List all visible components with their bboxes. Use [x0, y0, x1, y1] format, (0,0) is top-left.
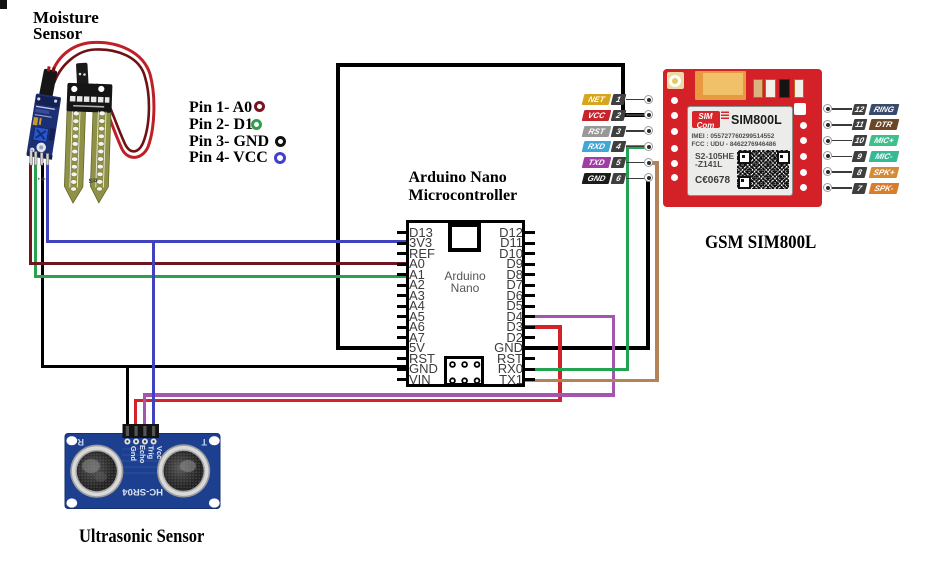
svg-text:Trig: Trig — [147, 446, 156, 460]
GSM QR code — [737, 150, 789, 189]
svg-text:Vcc: Vcc — [155, 446, 164, 459]
wire D4 purple horizontal from Arduino — [525, 315, 615, 319]
pin stub A3 (left row 7) — [397, 294, 407, 297]
wire GND black: horizontal to Arduino GND right — [525, 346, 650, 350]
GSM pin 2 number chip — [611, 110, 627, 121]
GSM pin 4 pad — [644, 142, 653, 151]
GSM pin 4 lead line — [626, 146, 646, 148]
GSM pin 2 pad — [644, 110, 653, 119]
GSM pin 9 pad — [823, 151, 832, 160]
transducer right — [157, 444, 210, 497]
svg-text:Gnd: Gnd — [129, 446, 138, 461]
pin stub D12 (right row 1) — [525, 231, 535, 234]
moisture module connector — [39, 66, 58, 99]
pin stub A6 (left row 10) — [397, 326, 407, 329]
legend pin 1 ring A0 — [254, 101, 265, 112]
pin stub D8 (right row 5) — [525, 273, 535, 276]
pin label D2 — [455, 333, 523, 343]
GSM pin 6 label chip GND — [582, 173, 612, 184]
pin label D3 — [455, 322, 523, 332]
GSM pin 10 lead line — [832, 140, 852, 142]
pin label A3 — [409, 291, 425, 301]
wire ultrasonic Trig purple vertical — [143, 393, 147, 428]
wire TXD brown: GSM pin5 stub — [649, 161, 659, 165]
GSM pin 6 lead line — [626, 178, 646, 180]
pin label D5 — [455, 301, 523, 311]
GSM SIMCom logo — [692, 111, 720, 128]
pin stub RX0 (right row 14) — [525, 368, 535, 371]
pin stub GND (right row 12) — [525, 347, 535, 350]
GSM right pad square — [794, 103, 806, 115]
GSM pin 5 number chip — [611, 157, 627, 168]
pin label A7 — [409, 333, 425, 343]
GSM pin 3 pad — [644, 126, 653, 135]
wire A0 dark red vertical from moisture — [29, 163, 32, 264]
pin label D12 — [455, 228, 523, 238]
title Arduino Nano Microcontroller — [409, 169, 518, 205]
wire moisture GND black horizontal to Arduino GND left — [41, 365, 408, 368]
pin label GND — [409, 364, 438, 374]
wire TXD brown horizontal to Arduino TX1 — [525, 379, 659, 383]
wire D3 red vertical — [558, 325, 562, 402]
pin label D4 — [455, 312, 523, 322]
GSM pin 12 number chip — [852, 104, 868, 115]
legend pin 4 ring VCC — [274, 152, 286, 164]
GSM IMEI line — [692, 133, 775, 140]
GSM pin 4 number chip — [611, 141, 627, 152]
GSM pin 1 lead line — [626, 99, 646, 101]
wire VCC black: left vertical — [336, 63, 340, 350]
pin stub RST (right row 13) — [525, 357, 535, 360]
wire D4 purple bottom horizontal to ultrasonic Trig — [143, 393, 615, 397]
legend pin 1 label — [189, 99, 252, 117]
GSM pin 7 pad — [823, 183, 832, 192]
moisture sensor assembly — [15, 35, 180, 215]
wire VCC black: GSM pin2 to Arduino 5V, segment pad to corner — [621, 113, 649, 117]
Arduino center text — [432, 270, 498, 294]
wire GND black: GSM pin6 vertical down — [646, 178, 650, 350]
GSM pin 3 lead line — [626, 130, 646, 132]
GSM pin 12 label chip RING — [868, 104, 899, 115]
GSM pin 1 pad — [644, 95, 653, 104]
GSM pin 11 lead line — [832, 124, 852, 126]
legend pin 3 label — [189, 133, 269, 151]
svg-text:HC-SR04: HC-SR04 — [122, 486, 163, 497]
op-board Arduino Nano body — [406, 220, 525, 387]
pin stub RST (left row 13) — [397, 357, 407, 360]
pin label A5 — [409, 312, 425, 322]
wire RXD green horizontal to Arduino RX0 — [525, 368, 629, 372]
pin label D9 — [455, 259, 523, 269]
pin stub GND (left row 14) — [397, 368, 407, 371]
wire VCC blue vertical from moisture — [46, 163, 49, 243]
header block — [123, 424, 160, 438]
pin stub D13 (left row 1) — [397, 231, 407, 234]
pin stub D10 (right row 3) — [525, 252, 535, 255]
GSM SIM800L module PCB — [663, 69, 822, 207]
pin label RX0 — [455, 364, 523, 374]
wire ultrasonic Vcc blue branch vertical — [152, 240, 155, 428]
pin stub VIN (left row 15) — [397, 378, 407, 381]
corner artifact mark — [0, 0, 7, 9]
pin label GND — [455, 343, 523, 353]
pin label D7 — [455, 280, 523, 290]
wire VCC black: top horizontal — [336, 63, 625, 67]
svg-text:·+: ·+ — [38, 174, 46, 184]
wire D3 red horizontal from Arduino — [525, 325, 562, 329]
wire A1 green vertical from moisture — [34, 163, 37, 278]
pin label D6 — [455, 291, 523, 301]
wire ultrasonic Gnd black branch vertical — [126, 365, 129, 428]
pin label D11 — [455, 238, 523, 248]
GSM shield SIM800L — [687, 106, 793, 196]
wire TXD brown vertical — [655, 161, 659, 382]
ultrasonic PCB — [65, 434, 220, 509]
GSM antenna pad — [667, 72, 684, 89]
header pads — [124, 439, 130, 445]
GSM QR finder top-right — [777, 151, 790, 164]
GSM pin 4 label chip RXD — [582, 141, 612, 152]
wire RXD green vertical — [626, 145, 630, 371]
GSM pin 8 number chip — [852, 167, 868, 178]
Arduino ICSP header — [444, 356, 484, 386]
GSM pin 7 lead line — [832, 187, 852, 189]
pin label A6 — [409, 322, 425, 332]
wire VCC black: into 5V pin — [336, 346, 407, 350]
moisture cable loop — [50, 42, 154, 157]
pin stub A1 (left row 5) — [397, 273, 407, 276]
ultrasonic sensor HC-SR04 — [58, 418, 228, 514]
svg-text:Echo: Echo — [138, 445, 147, 464]
trace lines — [122, 449, 160, 473]
pin stub D3 (right row 10) — [525, 326, 535, 329]
pin stub A2 (left row 6) — [397, 284, 407, 287]
pin stub A0 (left row 4) — [397, 263, 407, 266]
GSM pin 9 label chip MIC- — [868, 151, 899, 162]
legend pin 2 ring D1 — [251, 119, 262, 130]
legend pin 4 label — [189, 149, 268, 167]
GSM QR finder bottom-left — [738, 176, 751, 189]
pin label RST — [409, 354, 435, 364]
pin stub A7 (left row 11) — [397, 336, 407, 339]
GSM pin 9 number chip — [852, 151, 868, 162]
GSM pin 12 lead line — [832, 108, 852, 110]
pin label TX1 — [455, 375, 523, 385]
title Moisture Sensor — [33, 10, 99, 43]
GSM QR finder top-left — [738, 151, 751, 164]
pin label D13 — [409, 228, 433, 238]
GSM pin 6 pad — [644, 173, 653, 182]
wire VCC blue horizontal to Arduino 3V3 — [46, 240, 407, 243]
pin stub D6 (right row 7) — [525, 294, 535, 297]
pin stub D11 (right row 2) — [525, 242, 535, 245]
pin stub TX1 (right row 15) — [525, 378, 535, 381]
pin label D8 — [455, 270, 523, 280]
pin label A4 — [409, 301, 425, 311]
wire A1 green horizontal to Arduino A1 — [34, 275, 407, 278]
GSM pin 10 number chip — [852, 135, 868, 146]
pin stub 5V (left row 12) — [397, 347, 407, 350]
wire VCC black: vertical up — [621, 63, 625, 117]
wire D3 red bottom horizontal to ultrasonic Echo — [134, 399, 562, 403]
GSM logo dot grid — [721, 110, 729, 119]
wire moisture GND black vertical — [41, 163, 44, 368]
GSM left hole column — [671, 97, 678, 104]
pin stub A4 (left row 8) — [397, 305, 407, 308]
legend pin 3 ring GND — [275, 136, 286, 147]
GSM pin 8 label chip SPK+ — [868, 167, 899, 178]
GSM CE0678 text — [695, 175, 730, 186]
wire A0 dark red horizontal to Arduino A0 — [29, 262, 407, 265]
moisture probe cap — [76, 63, 89, 86]
GSM right hole column — [800, 122, 807, 129]
pin label RST — [455, 354, 523, 364]
GSM pin 1 number chip — [611, 94, 627, 105]
GSM pin 11 pad — [823, 120, 832, 129]
wire D4 purple vertical — [612, 315, 616, 397]
pin stub D7 (right row 6) — [525, 284, 535, 287]
svg-text:T: T — [201, 437, 207, 447]
GSM pin 12 pad — [823, 104, 832, 113]
GSM pin 11 number chip — [852, 119, 868, 130]
pin label 5V — [409, 343, 425, 353]
GSM pin 2 label chip VCC — [582, 110, 612, 121]
moisture module pins — [30, 150, 49, 165]
GSM pin 2 lead line — [626, 114, 646, 116]
GSM pin 6 number chip — [611, 173, 627, 184]
GSM pin 3 number chip — [611, 126, 627, 137]
moisture module PCB — [26, 93, 62, 159]
pin stub A5 (left row 9) — [397, 315, 407, 318]
GSM FCC line — [692, 141, 777, 148]
pin stub D4 (right row 9) — [525, 315, 535, 318]
pin label A1 — [409, 270, 425, 280]
pin label A2 — [409, 280, 425, 290]
transducer left — [70, 445, 123, 498]
GSM pin 11 label chip DTR — [868, 119, 899, 130]
GSM pin 9 lead line — [832, 156, 852, 158]
GSM pin 10 pad — [823, 136, 832, 145]
pin stub D5 (right row 8) — [525, 305, 535, 308]
legend pin 2 label — [189, 116, 253, 134]
Arduino ICSP pins — [444, 356, 484, 386]
pin stub D9 (right row 4) — [525, 263, 535, 266]
Arduino USB connector — [448, 223, 481, 252]
GSM chip title SIM800L — [731, 113, 782, 127]
GSM capacitor C1 — [753, 79, 763, 98]
GSM pin 3 label chip RST — [582, 126, 612, 137]
pin stub D2 (right row 11) — [525, 336, 535, 339]
corner holes — [66, 436, 77, 445]
caption GSM SIM800L — [705, 232, 816, 254]
moisture probe blade — [63, 83, 112, 204]
svg-text:R: R — [77, 437, 84, 447]
pin label VIN — [409, 375, 431, 385]
wire ultrasonic Echo red vertical — [134, 399, 138, 428]
GSM pin 10 label chip MIC+ — [868, 135, 899, 146]
pin label A0 — [409, 259, 425, 269]
GSM pin 8 pad — [823, 167, 832, 176]
GSM S2-105HE text — [695, 152, 734, 169]
GSM capacitor C4 — [794, 79, 804, 98]
pin label REF — [409, 249, 435, 259]
GSM pin 1 label chip NET — [582, 94, 612, 105]
wire RXD green: GSM pin4 horizontal — [626, 145, 649, 149]
GSM capacitor C2 — [765, 79, 776, 98]
GSM antenna/SIM orange block — [695, 71, 746, 100]
caption Ultrasonic Sensor — [79, 526, 204, 548]
GSM pin 7 label chip SPK- — [868, 183, 899, 194]
GSM capacitor C3 — [779, 79, 790, 98]
GSM pin 5 lead line — [626, 162, 646, 164]
GSM pin 7 number chip — [852, 183, 868, 194]
pin stub REF (left row 3) — [397, 252, 407, 255]
GSM pin 8 lead line — [832, 171, 852, 173]
pin stub 3V3 (left row 2) — [397, 242, 407, 245]
GSM pin 5 pad — [644, 158, 653, 167]
GSM pin 5 label chip TXD — [582, 157, 612, 168]
svg-text:s¤: s¤ — [89, 176, 98, 185]
pin label D10 — [455, 249, 523, 259]
pin label 3V3 — [409, 238, 432, 248]
